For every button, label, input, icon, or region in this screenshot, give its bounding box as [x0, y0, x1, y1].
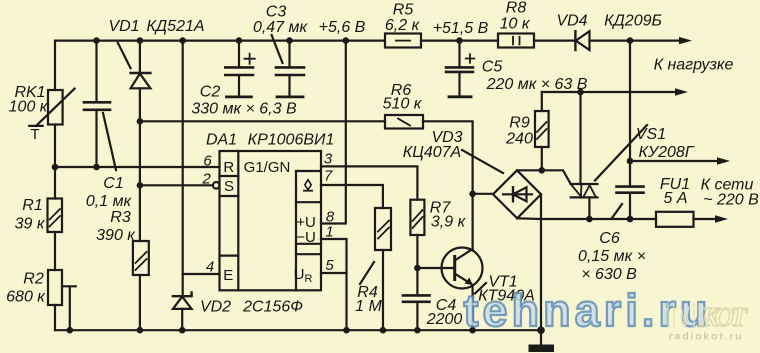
svg-text:6,2 к: 6,2 к: [385, 17, 421, 34]
wire: bottom ground rail: [55, 329, 541, 331]
diode VD4: [575, 31, 589, 50]
ground symbol: [529, 330, 555, 352]
wire: VT1 collector to bridge left: [473, 193, 493, 195]
svg-text:+5,6 В: +5,6 В: [319, 19, 366, 36]
svg-text:3: 3: [324, 151, 333, 168]
svg-text:VD2: VD2: [200, 299, 231, 316]
junction dot base net: [414, 265, 421, 272]
svg-text:R2: R2: [23, 271, 44, 288]
junction dot load line 2: [577, 89, 584, 96]
triac VS1: [571, 92, 647, 219]
svg-text:10 к: 10 к: [500, 16, 531, 33]
svg-text:510 к: 510 к: [383, 96, 423, 113]
svg-text:Т: Т: [30, 126, 39, 143]
svg-text:КОТ: КОТ: [700, 302, 749, 332]
svg-text:КР1006ВИ1: КР1006ВИ1: [248, 132, 335, 149]
svg-text:C5: C5: [482, 59, 503, 76]
svg-text:DA1: DA1: [206, 132, 237, 149]
resistor R9: [535, 92, 549, 170]
svg-text:R9: R9: [509, 115, 530, 132]
junction dots ground rail: [67, 327, 74, 334]
svg-text:3,9 к: 3,9 к: [431, 214, 467, 231]
op-amp timer DA1 KR1006VI1 box: [220, 151, 322, 290]
capacitor C4: [403, 268, 430, 330]
output arrow to load 2: [675, 88, 688, 95]
svg-text:~ 220 В: ~ 220 В: [703, 192, 759, 209]
wire: pin2 net from VD1 branch to DA1 S input: [140, 184, 213, 186]
wire: mains line upper: [630, 160, 718, 162]
svg-text:G1/GN: G1/GN: [244, 159, 291, 176]
capacitor C1: [84, 41, 116, 170]
svg-text:2200: 2200: [426, 311, 463, 328]
svg-text:100 к: 100 к: [9, 99, 49, 116]
resistor RK1 thermistor: [29, 89, 74, 126]
svg-text:R1: R1: [22, 197, 42, 214]
svg-text:tehnari.ru: tehnari.ru: [464, 285, 707, 336]
svg-text:C2: C2: [200, 84, 221, 101]
svg-text:1 М: 1 М: [355, 298, 382, 315]
svg-text:E: E: [223, 267, 233, 284]
svg-text:2С156Ф: 2С156Ф: [242, 299, 303, 316]
wire: VD1 anode to R6 (y=121): [140, 120, 385, 122]
svg-text:C6: C6: [599, 230, 620, 247]
wire: AC line bridge bottom to fuse: [517, 217, 656, 220]
svg-text:КД209Б: КД209Б: [604, 13, 662, 30]
svg-text:−U: −U: [296, 229, 316, 246]
svg-text:220 мк × 63 В: 220 мк × 63 В: [486, 76, 588, 93]
svg-text:VD1: VD1: [108, 18, 139, 35]
resistor R5: [385, 34, 421, 48]
pin 2 inversion circle on S input: [213, 182, 220, 189]
junction dots VD1 branch: [137, 118, 144, 125]
wire: load line 2: [542, 91, 676, 93]
resistor R6: [385, 115, 473, 194]
transistor VT1: [442, 194, 487, 330]
resistor R7: [410, 200, 424, 268]
svg-text:КУ208Г: КУ208Г: [638, 144, 694, 161]
svg-text:VD4: VD4: [556, 13, 587, 30]
svg-text:680 к: 680 к: [6, 289, 46, 306]
svg-text:R3: R3: [110, 209, 131, 226]
output arrow to load 1: [679, 37, 692, 44]
svg-text:4: 4: [206, 259, 214, 276]
resistor R8: [498, 34, 534, 48]
wire: top rail between R5 and R8: [421, 39, 498, 41]
svg-text:C1: C1: [103, 175, 123, 192]
wire: bridge top to triac gate: [517, 170, 571, 184]
resistor R4: [360, 208, 391, 330]
svg-text:39 к: 39 к: [15, 216, 46, 233]
capacitor C3: [272, 35, 304, 97]
svg-text:0,47 мк: 0,47 мк: [253, 19, 309, 36]
zener diode VD2: [173, 292, 192, 330]
svg-text:330 мк × 6,3 В: 330 мк × 6,3 В: [191, 101, 297, 118]
wire: +5.6V to DA1 pin8: [321, 41, 346, 224]
junction dot collector net: [469, 191, 476, 198]
output arrow to mains 2: [715, 215, 728, 222]
capacitor C6: [612, 41, 644, 219]
wire: pin7 discharge to R4: [321, 185, 383, 208]
wire: +5.6V branch to VD2 and pin4: [182, 41, 184, 297]
svg-text:VS1: VS1: [636, 126, 666, 143]
wire: base net R7/C4 to VT1: [417, 267, 454, 269]
svg-text:+51,5 В: +51,5 В: [433, 20, 489, 37]
svg-text:7: 7: [324, 168, 333, 185]
resistor R1: [48, 199, 63, 233]
wire: top rail R8 to VD4: [534, 39, 575, 41]
svg-text:240: 240: [505, 131, 533, 148]
junction dots pin6 net: [52, 164, 59, 171]
resistor R2 trimmer: [48, 270, 76, 330]
open collector symbol in discharge cell: [304, 180, 312, 191]
svg-text:S: S: [224, 178, 234, 195]
svg-text:radiokot.ru: radiokot.ru: [669, 331, 744, 343]
wire: pin6 net from left rail to DA1: [55, 166, 220, 168]
svg-text:R: R: [223, 159, 234, 176]
junction dot C6 top: [627, 158, 634, 165]
bridge rectifier VD3: [462, 150, 541, 218]
svg-text:2: 2: [201, 171, 211, 188]
svg-text:390 к: 390 к: [96, 227, 136, 244]
svg-text:КД521А: КД521А: [146, 18, 204, 35]
svg-text:6: 6: [203, 153, 212, 170]
diode VD1: [118, 41, 151, 122]
junction dot gate net: [539, 167, 546, 174]
capacitor C5 electrolytic: [446, 41, 474, 97]
wire: top +5.6V rail left segment: [55, 39, 385, 41]
wire: pin4 wire to E input: [183, 273, 220, 275]
svg-text:5: 5: [325, 257, 334, 274]
wire: pin3 output to R7: [321, 166, 417, 199]
fuse FU1: [656, 212, 716, 227]
svg-text:0,15 мк ×: 0,15 мк ×: [578, 248, 646, 265]
svg-text:R5: R5: [393, 2, 414, 19]
capacitor C2 electrolytic: [225, 41, 254, 97]
wire: bridge minus to ground: [540, 194, 542, 330]
watermark radiokot ghost strokes: [668, 303, 699, 328]
junction dots AC line: [586, 216, 593, 223]
output arrow to mains 1: [717, 157, 730, 164]
wire: top rail VD4 to load arrow: [590, 39, 682, 41]
wire: left rail vertical: [54, 41, 56, 331]
svg-text:1: 1: [325, 224, 333, 241]
svg-text:К нагрузке: К нагрузке: [654, 57, 734, 74]
junction dots on top rail: [93, 37, 100, 44]
resistor R3: [133, 241, 149, 275]
svg-text:R8: R8: [506, 0, 527, 17]
wire: pin1 and pin5 to ground rail: [321, 239, 347, 330]
svg-text:× 630 В: × 630 В: [581, 266, 637, 283]
wire: vertical VD1/R3 branch: [139, 121, 141, 330]
svg-text:5 А: 5 А: [663, 190, 687, 207]
svg-text:0,1 мк: 0,1 мк: [86, 193, 133, 210]
svg-text:КЦ407А: КЦ407А: [403, 144, 461, 161]
